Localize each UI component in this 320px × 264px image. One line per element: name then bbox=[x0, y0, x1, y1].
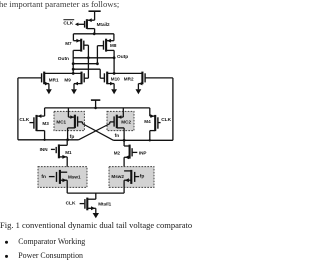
svg-text:Mtail1: Mtail1 bbox=[98, 201, 111, 206]
svg-text:MC2: MC2 bbox=[121, 120, 131, 125]
svg-text:fp: fp bbox=[70, 134, 75, 140]
svg-text:CLK: CLK bbox=[63, 21, 73, 27]
svg-text:M4: M4 bbox=[144, 119, 151, 124]
svg-text:M2: M2 bbox=[114, 151, 121, 156]
svg-text:M3: M3 bbox=[42, 121, 49, 126]
svg-text:M8: M8 bbox=[110, 43, 117, 48]
svg-text:CLK: CLK bbox=[66, 201, 76, 207]
svg-text:M10: M10 bbox=[111, 76, 120, 81]
svg-text:fn: fn bbox=[115, 133, 120, 139]
svg-text:M9: M9 bbox=[64, 77, 71, 82]
svg-text:fn: fn bbox=[41, 174, 46, 180]
svg-text:fp: fp bbox=[140, 173, 145, 179]
svg-text:INN: INN bbox=[40, 147, 49, 152]
svg-text:M7: M7 bbox=[65, 41, 72, 46]
svg-text:M1: M1 bbox=[65, 150, 72, 155]
svg-text:MR1: MR1 bbox=[49, 77, 59, 82]
svg-text:MC1: MC1 bbox=[56, 119, 66, 124]
svg-text:INP: INP bbox=[139, 151, 147, 156]
svg-text:Msw2: Msw2 bbox=[111, 174, 124, 179]
svg-text:CLK: CLK bbox=[19, 117, 29, 123]
svg-text:MR2: MR2 bbox=[124, 76, 134, 81]
svg-text:Mtail2: Mtail2 bbox=[97, 22, 110, 27]
svg-text:Msw1: Msw1 bbox=[68, 174, 81, 179]
svg-text:Outn: Outn bbox=[58, 56, 69, 62]
svg-text:CLK: CLK bbox=[161, 117, 171, 123]
svg-text:Outp: Outp bbox=[117, 54, 128, 60]
